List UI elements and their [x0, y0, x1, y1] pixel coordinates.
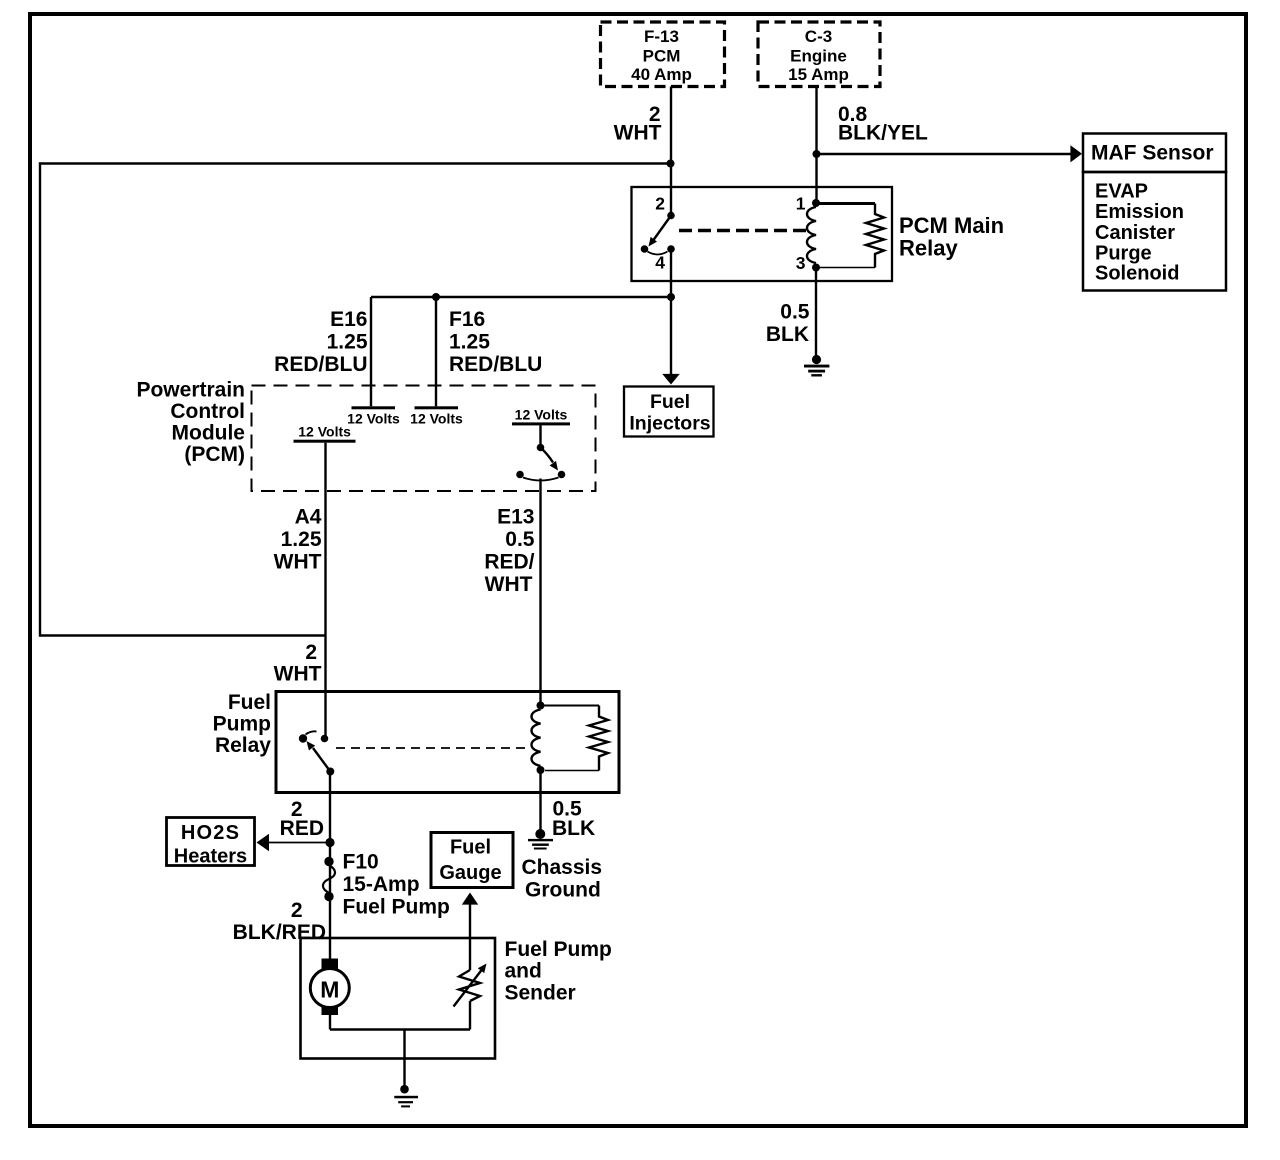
pin 1 dot: [812, 199, 820, 207]
fuel pump relay switch blade: [307, 741, 331, 772]
svg-text:M: M: [320, 977, 339, 1003]
svg-text:15 Amp: 15 Amp: [788, 65, 849, 84]
svg-text:12 Volts: 12 Volts: [347, 411, 400, 427]
label 2 BLK/RED: [233, 899, 326, 944]
node junction injector wire: [667, 293, 675, 301]
wire E13 upper: [539, 425, 541, 445]
label 2 WHT fuel pump relay input: [274, 641, 322, 686]
wire WHT left branch: [40, 164, 671, 636]
svg-text:PCM: PCM: [643, 47, 681, 66]
svg-text:F16: F16: [449, 308, 485, 331]
ground symbol fuel pump: [394, 1085, 418, 1108]
Fuel Pump and Sender box: [301, 938, 496, 1059]
label 2 RED: [280, 798, 324, 840]
ground symbol PCM main relay: [804, 355, 829, 377]
pin 3 dot: [812, 264, 820, 272]
wire to MAF Sensor with arrow: [817, 145, 1083, 162]
pin 4 dot: [667, 245, 675, 253]
pin 2 contact dot: [667, 212, 675, 220]
label 0.5 BLK chassis: [552, 798, 595, 841]
relay box Fuel Pump Relay: [276, 692, 619, 793]
svg-text:BLK/RED: BLK/RED: [233, 921, 326, 944]
label Powertrain Control Module (PCM): [136, 379, 245, 467]
switch pivot dot: [641, 245, 649, 253]
wire horizontal to 12V terminals: [371, 296, 671, 298]
svg-text:WHT: WHT: [485, 573, 533, 596]
svg-text:F10: F10: [343, 851, 379, 874]
svg-text:Fuel Pump: Fuel Pump: [343, 896, 450, 919]
svg-text:4: 4: [655, 253, 665, 273]
svg-text:Fuel: Fuel: [650, 391, 690, 413]
svg-text:BLK/YEL: BLK/YEL: [838, 122, 928, 145]
svg-text:(PCM): (PCM): [184, 443, 245, 466]
wire E13 lower: [539, 479, 541, 704]
node junction on WHT wire: [667, 160, 675, 168]
wire sender bottom: [469, 1001, 471, 1030]
label Chassis Ground: [522, 856, 603, 902]
fuel pump relay switch left contact dot: [299, 734, 307, 742]
wire relay pin 4 to Fuel Injectors: [670, 249, 672, 374]
svg-text:RED/: RED/: [484, 551, 534, 574]
svg-text:1.25: 1.25: [281, 528, 322, 551]
svg-text:1: 1: [796, 194, 806, 214]
motor M fuel pump: [310, 959, 349, 1016]
svg-text:Pump: Pump: [213, 713, 271, 736]
svg-text:EVAP: EVAP: [1095, 181, 1148, 203]
terminal 12 Volts A4: [294, 424, 356, 443]
svg-text:2: 2: [291, 899, 303, 922]
HO2S Heaters box: [167, 818, 255, 868]
wire C-3 to relay pin 1: [815, 87, 817, 201]
EVAP Emission Canister Purge Solenoid box: [1083, 172, 1226, 291]
svg-text:Purge: Purge: [1095, 242, 1152, 264]
bottom bus wire: [330, 1028, 470, 1030]
svg-text:F-13: F-13: [644, 27, 679, 46]
label A4 1.25 WHT: [274, 506, 322, 574]
wire A4: [324, 443, 326, 737]
svg-text:WHT: WHT: [274, 551, 322, 574]
MAF Sensor box: [1083, 134, 1226, 173]
svg-text:2: 2: [655, 194, 665, 214]
svg-text:3: 3: [796, 253, 806, 273]
terminal 12 Volts F16: [410, 406, 463, 426]
svg-text:Fuel: Fuel: [228, 691, 271, 714]
fuse C-3 Engine 15 Amp: [758, 22, 880, 87]
label 0.8 BLK/YEL: [838, 103, 928, 145]
fuel pump relay resistor R2: [542, 706, 608, 771]
svg-text:and: and: [505, 960, 542, 983]
fuel pump relay coil bottom dot: [537, 766, 545, 774]
fuel pump relay coil top dot: [537, 702, 545, 710]
wire coil to chassis ground: [539, 770, 541, 831]
svg-text:40 Amp: 40 Amp: [631, 65, 692, 84]
label E13 0.5 RED/ WHT: [484, 506, 534, 597]
svg-text:RED/BLU: RED/BLU: [449, 353, 542, 376]
svg-text:Fuel Pump: Fuel Pump: [505, 938, 612, 961]
wire relay switch to fuel pump: [329, 772, 331, 960]
label PCM Main Relay: [899, 213, 1004, 261]
svg-text:WHT: WHT: [274, 663, 322, 686]
fuel pump relay switch common dot: [326, 768, 334, 776]
svg-text:Injectors: Injectors: [629, 413, 710, 435]
PCM driver switch right contact dot: [558, 471, 566, 479]
svg-text:Chassis: Chassis: [522, 856, 603, 879]
relay coil L1: [807, 207, 816, 263]
wire motor to bottom bus: [329, 1015, 331, 1030]
svg-text:Ground: Ground: [525, 879, 601, 902]
svg-text:Canister: Canister: [1095, 222, 1175, 244]
wire F-13 to relay pin 2: [670, 87, 672, 214]
PCM driver switch blade: [541, 448, 559, 471]
label F10 15-Amp Fuel Pump: [343, 851, 450, 919]
svg-text:A4: A4: [295, 506, 322, 529]
wire sender top: [469, 938, 471, 970]
svg-text:Emission: Emission: [1095, 201, 1184, 223]
svg-text:Gauge: Gauge: [439, 862, 501, 884]
svg-text:Heaters: Heaters: [174, 846, 247, 868]
PCM driver switch left contact dot: [516, 471, 524, 479]
svg-text:MAF Sensor: MAF Sensor: [1091, 142, 1214, 165]
svg-text:PCM Main: PCM Main: [899, 213, 1004, 238]
fuel pump relay switch right contact dot: [321, 735, 329, 743]
svg-text:Engine: Engine: [790, 47, 847, 66]
PCM driver switch arc: [523, 478, 559, 481]
svg-text:12 Volts: 12 Volts: [298, 424, 351, 440]
svg-text:0.5: 0.5: [505, 528, 535, 551]
wire relay pin 3 to ground: [815, 268, 817, 357]
svg-text:0.5: 0.5: [780, 301, 810, 324]
svg-text:15-Amp: 15-Amp: [343, 873, 420, 896]
svg-text:Solenoid: Solenoid: [1095, 263, 1179, 285]
node junction F16: [432, 293, 440, 301]
terminal 12 Volts E13: [512, 407, 570, 426]
wire to fuel pump ground: [403, 1030, 405, 1087]
svg-text:WHT: WHT: [614, 122, 662, 145]
relay resistor R1: [817, 204, 884, 268]
relay actuation dashed link: [679, 229, 806, 232]
wire E16: [370, 297, 372, 406]
svg-text:HO2S: HO2S: [181, 822, 240, 844]
svg-text:12 Volts: 12 Volts: [515, 407, 568, 423]
fuel pump relay dashed link: [336, 747, 530, 749]
switch arc: [648, 252, 668, 255]
relay box PCM Main Relay: [632, 187, 893, 281]
label 2 WHT: [614, 103, 662, 145]
wire F16: [435, 297, 437, 406]
svg-text:RED/BLU: RED/BLU: [274, 353, 367, 376]
arrow to HO2S Heaters: [257, 834, 328, 851]
fuel pump relay coil L2: [532, 710, 541, 766]
label 0.5 BLK: [766, 301, 810, 347]
node junction on BLK/YEL wire: [813, 150, 821, 158]
relay switch blade Q: [649, 216, 672, 247]
svg-text:E16: E16: [330, 308, 367, 331]
svg-text:1.25: 1.25: [449, 331, 490, 354]
sender variable resistor: [454, 964, 487, 1007]
svg-text:RED: RED: [280, 817, 324, 840]
arrow into Fuel Gauge: [462, 893, 478, 939]
terminal 12 Volts E16: [347, 406, 400, 426]
svg-text:Powertrain: Powertrain: [136, 379, 245, 402]
svg-text:Relay: Relay: [215, 734, 271, 757]
fuel pump relay switch arc: [306, 731, 317, 734]
svg-text:12 Volts: 12 Volts: [410, 411, 463, 427]
fuse F-13 PCM 40 Amp: [601, 22, 725, 87]
svg-text:Fuel: Fuel: [450, 837, 491, 859]
svg-text:E13: E13: [497, 506, 534, 529]
svg-text:1.25: 1.25: [327, 331, 368, 354]
arrow into Fuel Injectors: [662, 374, 680, 385]
svg-text:2: 2: [305, 641, 317, 664]
Fuel Injectors box: [624, 387, 714, 437]
svg-text:Module: Module: [172, 422, 246, 445]
svg-text:C-3: C-3: [805, 27, 832, 46]
label Fuel Pump Relay: [213, 691, 272, 757]
chassis ground symbol: [528, 829, 553, 850]
svg-text:BLK: BLK: [552, 817, 595, 840]
node junction HO2S: [325, 838, 334, 847]
svg-text:BLK: BLK: [766, 323, 809, 346]
svg-text:Sender: Sender: [505, 982, 576, 1005]
Fuel Gauge box: [431, 833, 513, 888]
svg-text:Control: Control: [170, 400, 245, 423]
label F16 1.25 RED/BLU: [449, 308, 542, 376]
PCM dashed box: [252, 386, 596, 492]
PCM driver switch pivot dot: [537, 444, 545, 452]
label E16 1.25 RED/BLU: [274, 308, 368, 376]
label Fuel Pump and Sender: [505, 938, 612, 1005]
fuse F10: [323, 857, 335, 901]
svg-text:Relay: Relay: [899, 236, 958, 261]
